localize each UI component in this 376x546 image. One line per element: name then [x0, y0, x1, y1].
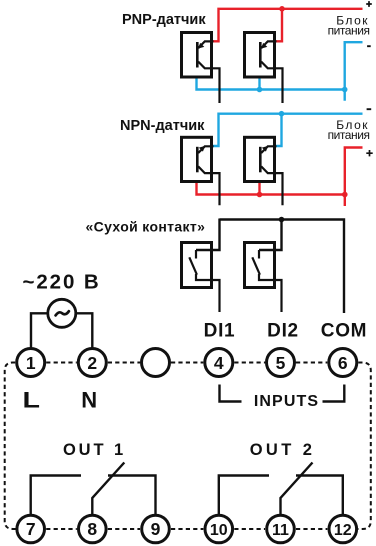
- INPUTS bracket left: [220, 385, 242, 402]
- wire red +V rail (PNP): [213, 9, 363, 42]
- dashed links terminal row 1: [46, 362, 327, 364]
- dashed links terminal row 2: [46, 528, 327, 530]
- terminal 11: [267, 515, 295, 543]
- sensor box Q1 (PNP): [182, 33, 212, 78]
- label dry contact: [86, 219, 206, 235]
- wire lead into S2: [259, 220, 282, 251]
- node junction at S2 lead: [279, 217, 285, 223]
- svg-text:OUT 2: OUT 2: [250, 441, 316, 459]
- sensor box Q4 (NPN): [245, 137, 275, 181]
- label + (NPN supply): [366, 150, 372, 156]
- terminal 8: [79, 515, 107, 543]
- terminal 1: [17, 349, 45, 377]
- wire red drop from Q4 box: [258, 182, 260, 195]
- wire red drop to Q2: [276, 9, 282, 42]
- svg-text:6: 6: [338, 353, 348, 373]
- svg-text:L: L: [22, 388, 39, 412]
- svg-text:INPUTS: INPUTS: [254, 393, 319, 410]
- label L: [22, 388, 39, 412]
- switch S2 symbol: [252, 250, 281, 312]
- relay K1 pole from terminal 7: [31, 476, 81, 515]
- svg-text:DI1: DI1: [204, 321, 236, 342]
- label tilde in source: [56, 311, 69, 315]
- svg-text:9: 9: [151, 519, 161, 539]
- relay K1 contact from terminal 9: [108, 476, 156, 515]
- label ~220 V: [23, 270, 101, 293]
- wire blue drop from Q2 box: [258, 78, 260, 90]
- node junction blue at Q4 drop: [279, 111, 285, 117]
- terminal 6: [329, 349, 357, 377]
- wire blue -V rail (NPN): [213, 114, 363, 146]
- wire lead into S1: [196, 219, 220, 251]
- terminal 4: [205, 349, 233, 377]
- label + (PNP supply): [366, 1, 372, 7]
- AC source G1: [48, 299, 76, 327]
- svg-text:OUT 1: OUT 1: [63, 441, 126, 459]
- sensor box Q3 (NPN): [182, 137, 212, 181]
- svg-text:1: 1: [26, 353, 36, 373]
- terminal 7: [17, 515, 45, 543]
- label COM: [321, 321, 367, 342]
- svg-text:питания: питания: [328, 128, 370, 142]
- node junction blue at Q2: [257, 87, 263, 93]
- svg-text:N: N: [81, 387, 97, 412]
- label - (PNP supply): [367, 45, 371, 47]
- switch S1 symbol: [189, 250, 219, 312]
- svg-text:«Сухой контакт»: «Сухой контакт»: [86, 219, 206, 235]
- terminal 10: [205, 515, 233, 543]
- svg-text:PNP-датчик: PNP-датчик: [122, 12, 206, 28]
- label OUT 2: [250, 441, 316, 459]
- svg-text:NPN-датчик: NPN-датчик: [120, 118, 205, 134]
- terminal 9: [142, 515, 170, 543]
- svg-text:DI2: DI2: [267, 321, 299, 342]
- transistor Q1 PNP symbol: [197, 41, 219, 103]
- label NPN sensor: [120, 118, 205, 134]
- svg-text:~220 В: ~220 В: [23, 270, 101, 293]
- label N: [81, 387, 97, 412]
- arrow emitter Q1 (points to base, PNP): [198, 43, 204, 49]
- relay K2 contact from terminal 12: [296, 476, 343, 515]
- svg-text:8: 8: [87, 519, 97, 539]
- node junction red at Q2 drop: [279, 6, 285, 12]
- wire red plus rail (NPN): [197, 182, 345, 195]
- terminal 5: [267, 349, 295, 377]
- svg-text:5: 5: [276, 353, 286, 373]
- svg-text:10: 10: [210, 522, 228, 539]
- label INPUTS: [254, 393, 319, 410]
- wire source to terminal 2: [76, 313, 92, 348]
- wire dry contact top rail to COM: [220, 220, 345, 314]
- wire blue drop to Q4: [276, 114, 282, 146]
- label OUT 1: [63, 441, 126, 459]
- svg-text:11: 11: [272, 522, 289, 539]
- terminal 2: [78, 349, 106, 377]
- wire source to terminal 1: [31, 313, 48, 348]
- label power supply (PNP): [328, 13, 370, 37]
- device outline dashed left: [5, 363, 16, 530]
- transistor Q4 NPN symbol: [260, 146, 282, 205]
- arrow emitter Q3 (points out, NPN): [199, 146, 205, 152]
- node junction red at Q4: [257, 192, 263, 198]
- svg-text:4: 4: [214, 353, 224, 373]
- relay K2 pole from terminal 10: [219, 476, 269, 515]
- arrow emitter Q2 (points to base, PNP): [261, 43, 267, 49]
- label PNP sensor: [122, 12, 206, 28]
- switch box S2 (dry contact): [245, 243, 275, 288]
- relay K2 blade from terminal 11: [281, 463, 313, 515]
- transistor Q2 PNP symbol: [260, 41, 282, 103]
- device outline dashed right: [358, 363, 371, 530]
- transistor Q3 NPN symbol: [197, 146, 219, 205]
- wire red +V lead from supply (NPN): [345, 148, 363, 207]
- node junction red at supply lead: [342, 192, 348, 198]
- label DI2: [267, 321, 299, 342]
- arrow emitter Q4 (points out, NPN): [262, 146, 268, 152]
- wire blue -V lead from supply (PNP): [345, 42, 363, 100]
- label DI1: [204, 321, 236, 342]
- INPUTS bracket right: [323, 385, 345, 402]
- svg-text:2: 2: [87, 353, 97, 373]
- label - (NPN supply): [367, 108, 372, 110]
- terminal 12: [329, 515, 357, 543]
- node junction blue at supply lead: [342, 87, 348, 93]
- wire blue minus rail (PNP): [197, 78, 345, 90]
- svg-text:COM: COM: [321, 321, 367, 342]
- svg-text:7: 7: [26, 519, 36, 539]
- label power supply (NPN): [328, 118, 370, 142]
- switch box S1 (dry contact): [182, 243, 212, 288]
- svg-text:питания: питания: [328, 24, 370, 38]
- sensor box Q2 (PNP): [245, 33, 275, 78]
- relay K1 blade from terminal 8: [92, 463, 124, 515]
- terminal 3 unnumbered: [142, 349, 170, 377]
- svg-text:12: 12: [334, 522, 352, 539]
